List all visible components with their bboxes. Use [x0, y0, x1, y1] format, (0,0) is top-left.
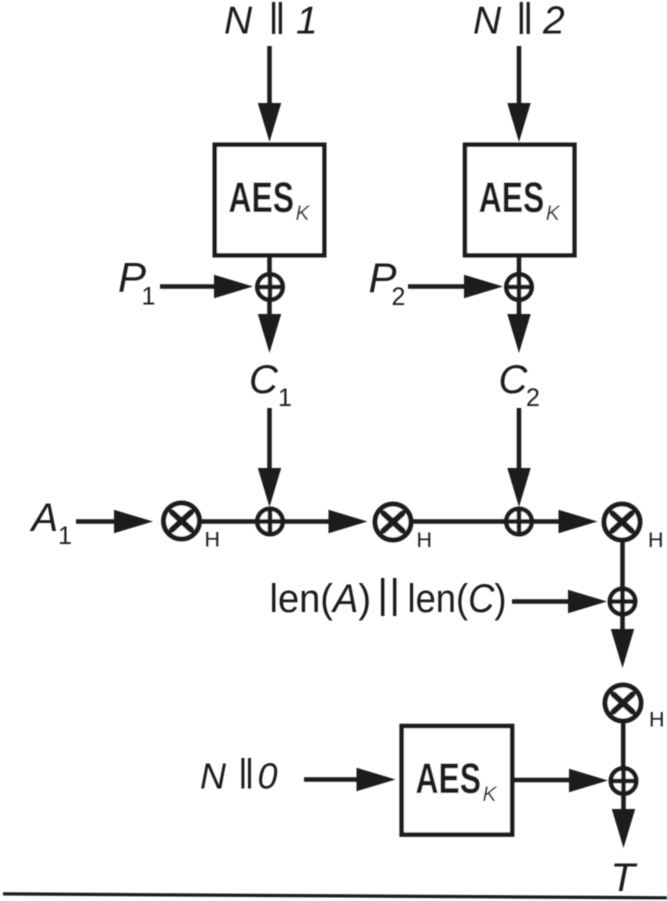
svg-text:0: 0 [258, 756, 278, 797]
svg-text:1: 1 [58, 522, 72, 550]
svg-text:1: 1 [296, 0, 318, 43]
svg-text:A: A [30, 496, 59, 540]
svg-text:2: 2 [526, 384, 540, 412]
svg-text:2: 2 [542, 0, 565, 43]
svg-text:H: H [205, 528, 221, 552]
svg-text:H: H [417, 528, 433, 552]
svg-text:AES: AES [229, 174, 295, 222]
svg-text:1: 1 [278, 384, 292, 412]
svg-text:H: H [648, 528, 664, 552]
svg-text:AES: AES [416, 755, 482, 803]
svg-text:len(C): len(C) [408, 577, 507, 621]
svg-text:T: T [611, 856, 638, 900]
svg-text:C: C [249, 358, 279, 402]
svg-text:K: K [546, 202, 561, 225]
svg-text:C: C [499, 358, 529, 402]
svg-text:N: N [473, 0, 502, 43]
svg-text:N: N [224, 0, 253, 43]
svg-text:1: 1 [142, 283, 156, 311]
svg-text:len(A): len(A) [270, 577, 372, 621]
svg-text:AES: AES [479, 174, 545, 222]
svg-text:2: 2 [392, 283, 406, 311]
svg-text:K: K [296, 202, 311, 225]
svg-text:K: K [483, 783, 498, 806]
svg-text:N: N [200, 756, 227, 797]
svg-text:H: H [649, 708, 665, 732]
